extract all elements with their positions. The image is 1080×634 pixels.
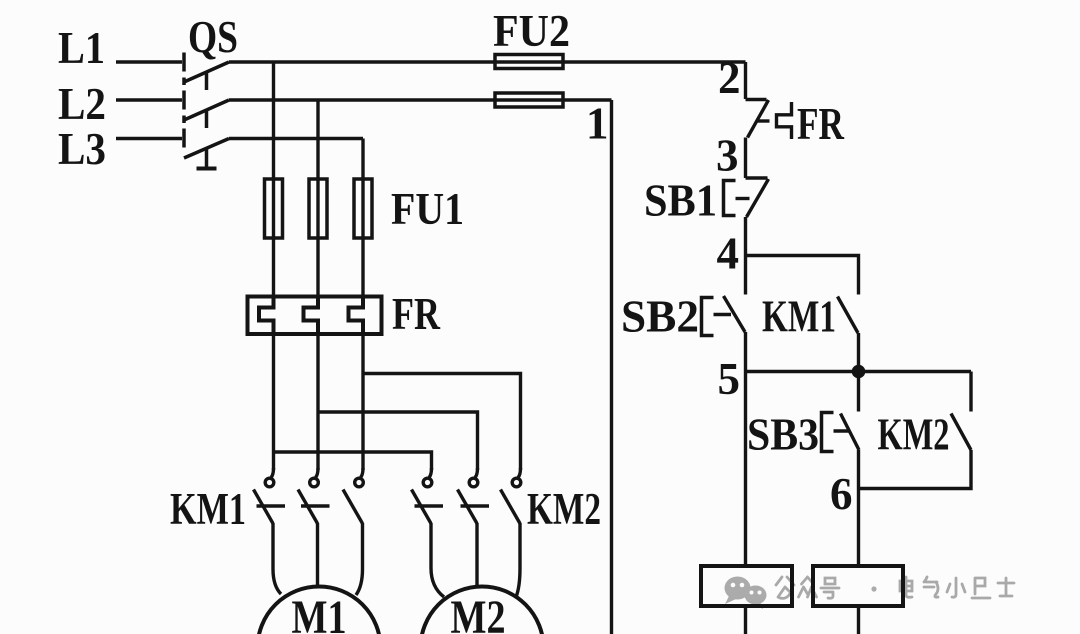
SB2 blade: [724, 296, 746, 332]
coil KM2: [813, 566, 903, 606]
fuse FU1 c: [354, 179, 372, 238]
KM1 main pole1: [254, 468, 286, 524]
motor M1 circle: [258, 587, 381, 634]
wire 3-4: [744, 217, 747, 295]
svg-text:SB2: SB2: [621, 292, 699, 342]
wire branch B to KM2 pole2: [318, 412, 478, 470]
wire phase B to KM1 pole2: [316, 334, 319, 470]
wire M1 mid: [316, 523, 319, 587]
SB2 tick: [714, 313, 732, 316]
KM2 main pole1: [412, 468, 444, 524]
coil KM1: [701, 566, 792, 606]
SB1 tick: [736, 197, 750, 200]
wire M2 left: [431, 523, 444, 597]
KM1 main pole3: [343, 468, 363, 524]
wire M1 left: [273, 523, 281, 594]
wire SB2 branch to coil: [744, 372, 747, 567]
switch QS pole2: [184, 91, 229, 129]
SB3 blade: [841, 414, 860, 451]
FR contact tick: [757, 119, 770, 122]
wire L3 bus: [229, 137, 363, 140]
wire M1 right: [356, 523, 363, 595]
wire phase A down: [272, 62, 275, 296]
svg-text:4: 4: [717, 229, 740, 279]
SB1 seat: [746, 176, 768, 179]
svg-text:SB1: SB1: [644, 176, 717, 226]
motor M2 circle: [421, 587, 544, 634]
SB1 blade: [747, 179, 769, 217]
KM2 aux blade: [951, 414, 971, 451]
wire L2 bus: [229, 98, 612, 101]
wire branch C to KM2 pole3: [363, 374, 521, 471]
wire SB2 to node5: [744, 332, 747, 372]
FR heater a: [259, 296, 274, 335]
L3 wire in: [116, 137, 182, 140]
wire SB3 to coil: [857, 450, 860, 566]
watermark text: [776, 577, 1014, 598]
FR contact seat: [746, 98, 767, 101]
FR heater b: [304, 296, 319, 335]
wire below KM1 coil: [744, 606, 747, 634]
FR contact blade: [748, 100, 769, 138]
watermark wechat icon: [725, 577, 767, 610]
svg-text:QS: QS: [188, 12, 238, 62]
KM2 aux branch: [969, 372, 972, 412]
svg-text:2: 2: [718, 53, 741, 103]
node 4 branch: [746, 256, 859, 295]
svg-text:FR: FR: [392, 289, 440, 339]
fuse FU1 a: [265, 179, 283, 238]
switch QS pole1: [184, 53, 229, 91]
svg-text:KM1: KM1: [170, 484, 246, 534]
wire phase C to KM1 pole3: [361, 334, 364, 470]
svg-text:KM2: KM2: [527, 484, 601, 534]
svg-text:FU1: FU1: [391, 184, 464, 234]
svg-text:L3: L3: [58, 124, 106, 174]
svg-text:M1: M1: [292, 591, 347, 634]
wire phase C down: [361, 139, 364, 297]
svg-text:FR: FR: [797, 99, 844, 149]
svg-text:KM2: KM2: [878, 410, 950, 460]
SB3 upper wire: [857, 372, 860, 412]
wire phase B down: [316, 100, 319, 296]
FR heater c: [349, 296, 364, 335]
wire phase A to KM1 pole1: [272, 334, 275, 470]
wire branch A to KM2 pole1: [274, 452, 432, 470]
fuse FU2 upper: [495, 55, 563, 69]
wire line 1 vertical: [610, 100, 613, 634]
junction dot: [852, 365, 866, 379]
node 5 bus: [746, 370, 972, 373]
svg-text:SB3: SB3: [747, 410, 819, 460]
SB1 bracket: [724, 181, 736, 216]
KM1 main pole2: [298, 468, 330, 524]
SB2 bracket: [702, 298, 714, 336]
svg-text:FU2: FU2: [493, 6, 570, 56]
svg-text:1: 1: [586, 99, 609, 149]
wire M2 mid: [475, 523, 478, 587]
svg-text:3: 3: [716, 131, 739, 181]
svg-text:L2: L2: [58, 79, 106, 129]
wire KM1aux to node5: [857, 333, 860, 372]
thermal relay FR box: [248, 297, 382, 335]
svg-text:L1: L1: [58, 23, 105, 73]
fuse FU1 b: [309, 179, 327, 238]
KM2 main pole2: [458, 468, 490, 524]
switch QS pole3: [184, 129, 229, 169]
svg-text:M2: M2: [451, 591, 506, 634]
L2 wire in: [116, 98, 182, 101]
fuse FU2 lower: [495, 93, 563, 107]
wire M2 right: [516, 523, 520, 597]
wire 2-3: [744, 138, 747, 179]
FR thermal step symbol: [777, 102, 792, 139]
svg-text:KM1: KM1: [762, 292, 836, 342]
SB3 tick: [834, 429, 851, 432]
L1 wire in: [116, 60, 182, 63]
wire below KM2 coil: [857, 606, 860, 634]
svg-text:5: 5: [718, 354, 741, 404]
svg-text:6: 6: [830, 469, 853, 519]
KM2 main pole3: [501, 468, 521, 524]
KM2 aux lower wire: [859, 450, 972, 489]
SB3 bracket: [822, 413, 834, 452]
KM1 aux blade: [838, 297, 859, 334]
wire control phase down: [744, 62, 747, 99]
wire L1 bus: [229, 60, 746, 63]
